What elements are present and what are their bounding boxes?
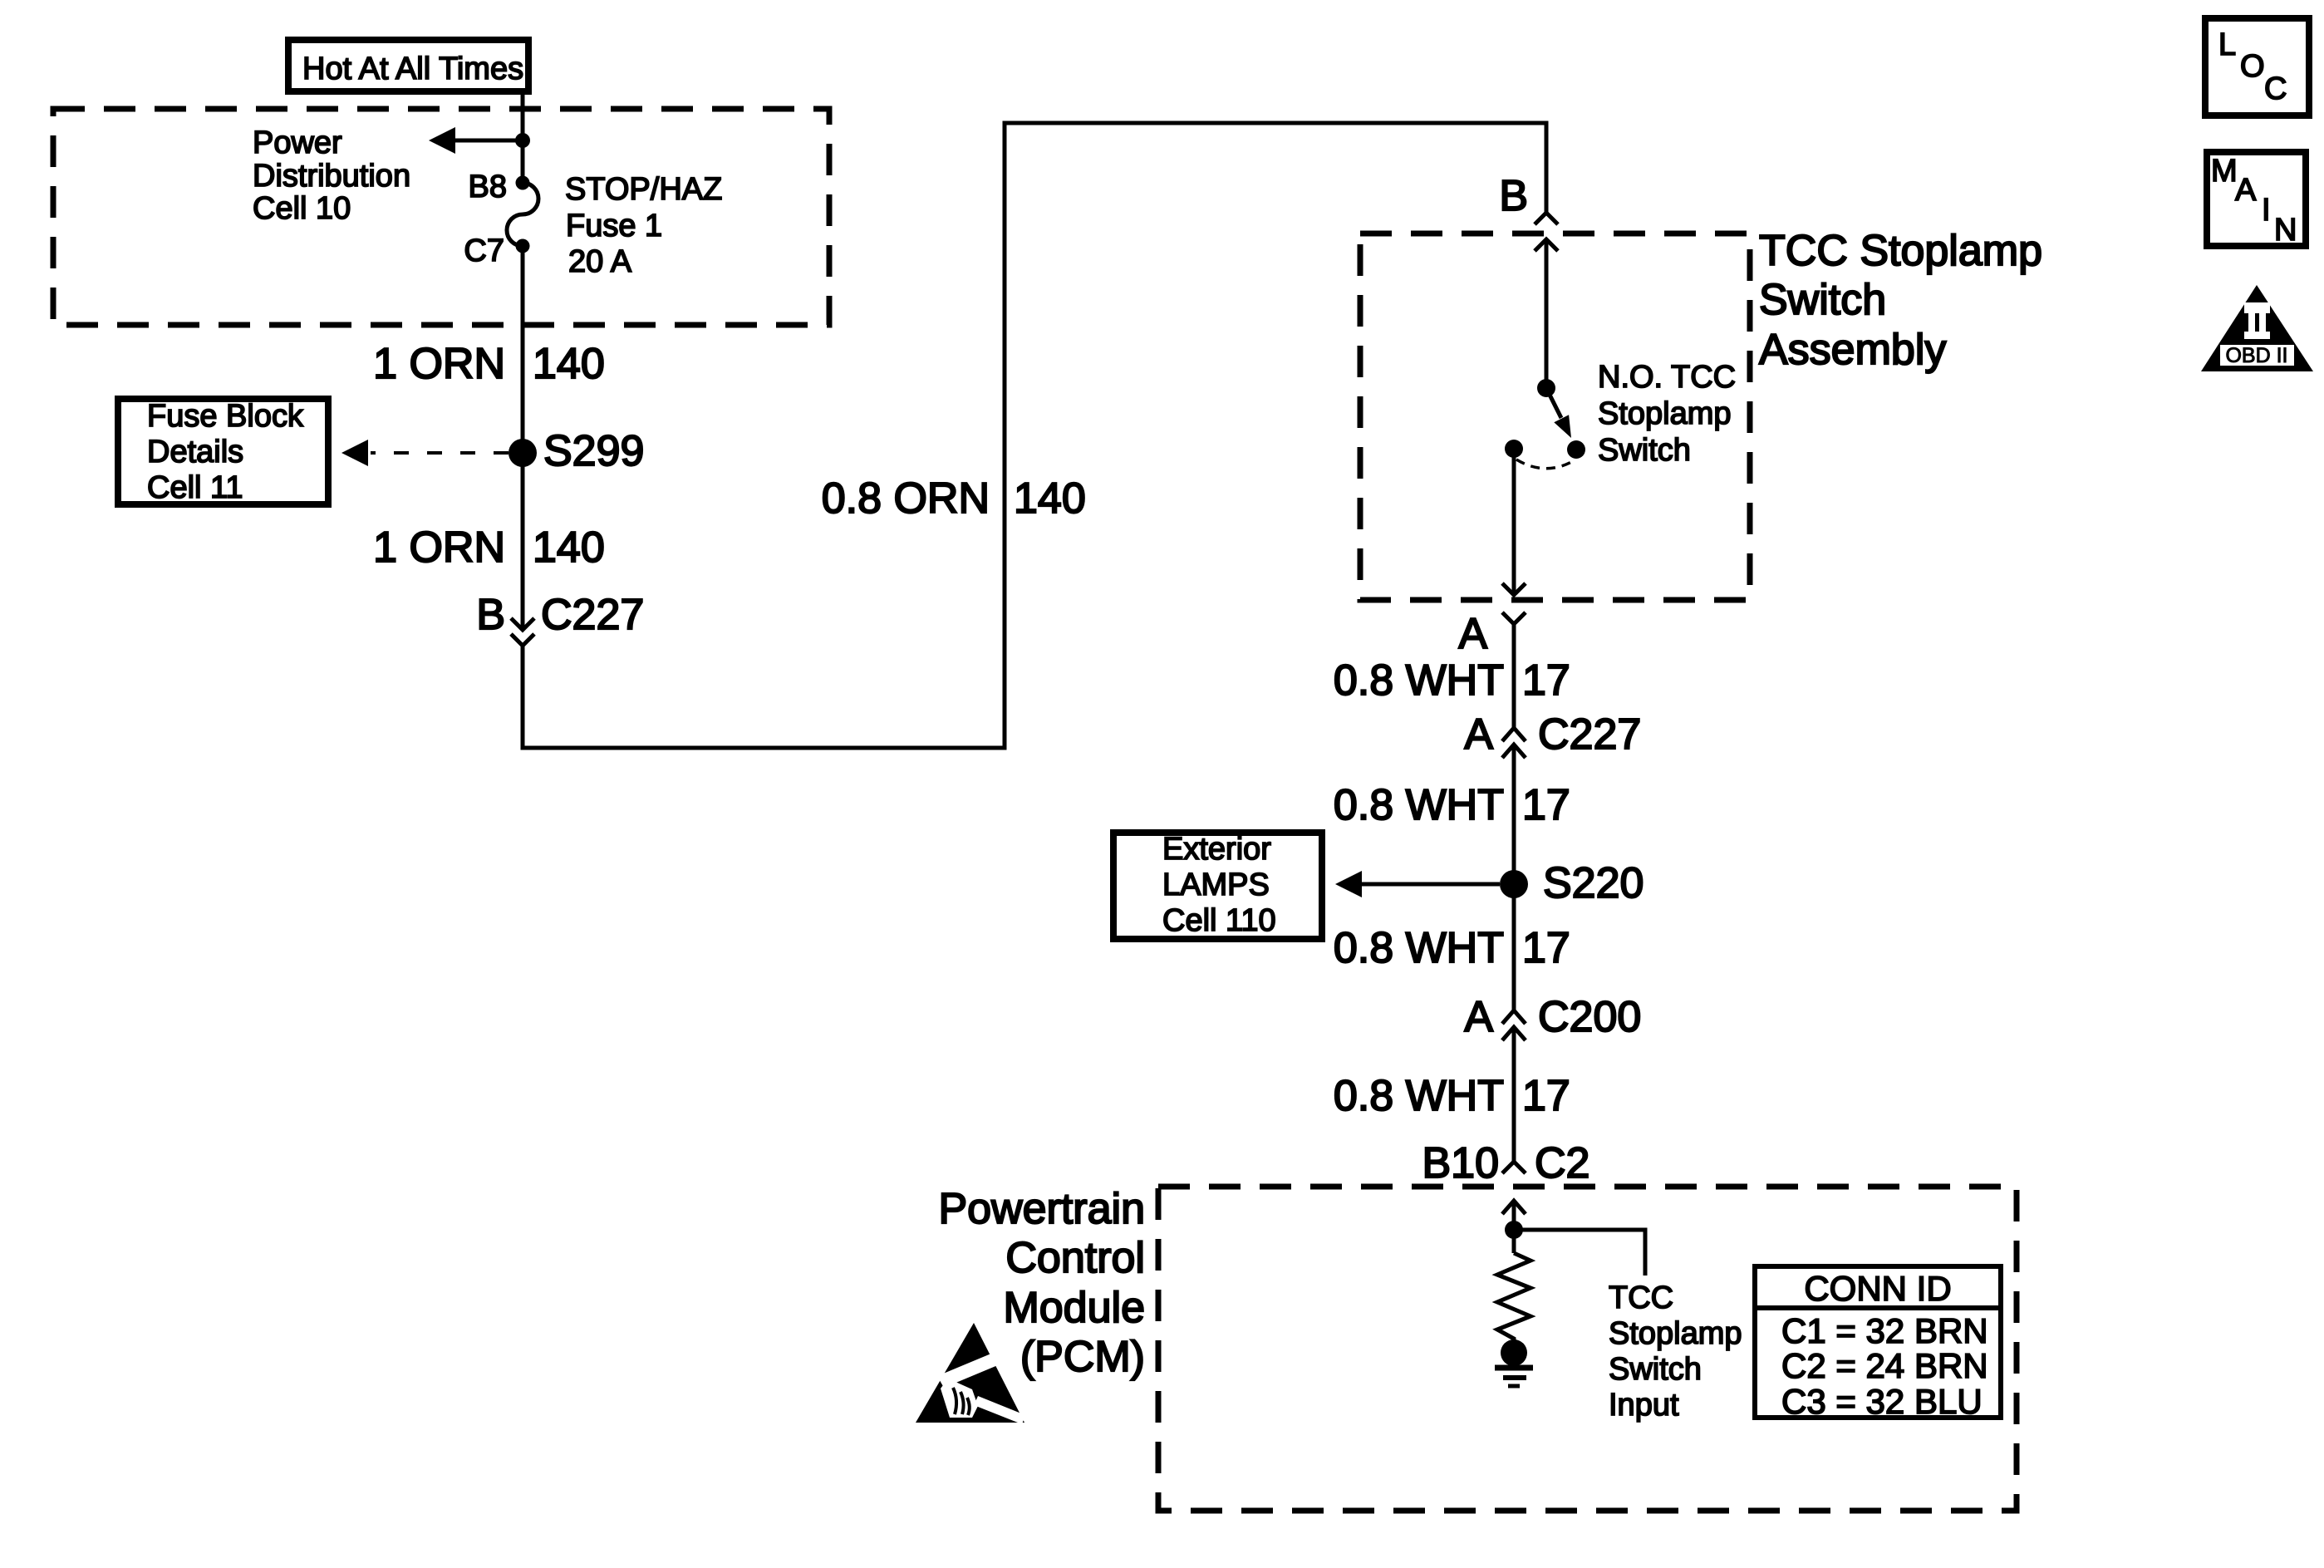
branch wire to TCC input stub <box>1514 1230 1645 1276</box>
svg-text:S220: S220 <box>1543 859 1644 907</box>
arrow to Power Distribution <box>429 127 523 154</box>
svg-text:0.8 ORN: 0.8 ORN <box>822 474 990 523</box>
wire C227 down, across, up, to TCC switch <box>523 123 1546 748</box>
svg-text:STOP/HAZ: STOP/HAZ <box>565 172 722 207</box>
svg-text:TCC Stoplamp: TCC Stoplamp <box>1759 227 2042 275</box>
wire C200 to connector C2 <box>1512 1027 1516 1162</box>
svg-text:Cell 10: Cell 10 <box>253 191 351 226</box>
svg-text:C7: C7 <box>464 233 504 268</box>
svg-text:B8: B8 <box>469 170 507 204</box>
svg-text:Switch: Switch <box>1598 433 1691 468</box>
svg-text:Assembly: Assembly <box>1759 326 1946 374</box>
LOC icon <box>2205 18 2309 116</box>
svg-text:Input: Input <box>1609 1388 1679 1423</box>
switch contact dot (left, on wire) <box>1505 440 1523 458</box>
svg-text:N: N <box>2274 213 2297 248</box>
splice S299 <box>509 439 537 467</box>
svg-text:17: 17 <box>1522 656 1570 705</box>
svg-text:C1 = 32 BRN: C1 = 32 BRN <box>1781 1311 1988 1350</box>
TCC Stoplamp Switch Assembly dashed box <box>1360 233 1750 600</box>
svg-text:Switch: Switch <box>1759 276 1886 324</box>
svg-text:17: 17 <box>1522 924 1570 972</box>
svg-text:Control: Control <box>1005 1234 1145 1282</box>
wire B into switch pivot <box>1545 239 1549 388</box>
pin dot C7 <box>516 239 530 253</box>
Powertrain Control Module dashed box <box>1158 1187 2017 1511</box>
svg-text:C2: C2 <box>1535 1139 1589 1187</box>
dashed arrow from S299 to Fuse Block Details <box>341 440 509 466</box>
OBD II icon <box>2201 285 2313 371</box>
svg-text:A: A <box>2235 173 2257 208</box>
wire S220 to connector C200 <box>1512 884 1516 1010</box>
switch travel dashed arc <box>1516 460 1575 469</box>
svg-text:B: B <box>476 591 505 639</box>
svg-text:Distribution: Distribution <box>253 159 410 194</box>
svg-text:C3 = 32 BLU: C3 = 32 BLU <box>1781 1382 1983 1421</box>
svg-text:N.O. TCC: N.O. TCC <box>1598 360 1736 395</box>
svg-text:C: C <box>2264 71 2287 106</box>
Power Distribution dashed box <box>53 109 829 325</box>
svg-text:C227: C227 <box>541 591 644 639</box>
connector B chevrons at TCC box top <box>1535 213 1558 251</box>
svg-text:0.8 WHT: 0.8 WHT <box>1334 656 1504 705</box>
switch blade with arrowhead <box>1546 388 1571 438</box>
svg-text:B10: B10 <box>1422 1139 1499 1187</box>
MAIN icon <box>2207 152 2306 248</box>
switch contact dot (right) <box>1567 440 1585 459</box>
svg-text:Details: Details <box>147 435 243 469</box>
svg-text:17: 17 <box>1522 1072 1570 1120</box>
Exterior LAMPS Cell 110 box <box>1113 832 1322 939</box>
svg-text:C200: C200 <box>1538 993 1641 1041</box>
junction dot <box>1505 1221 1523 1239</box>
wire A to connector C227 <box>1512 624 1516 728</box>
svg-text:0.8 WHT: 0.8 WHT <box>1334 924 1504 972</box>
svg-text:1 ORN: 1 ORN <box>373 340 505 388</box>
CONN ID table <box>1755 1266 2001 1421</box>
svg-text:Power: Power <box>253 125 342 160</box>
svg-text:Exterior: Exterior <box>1162 832 1271 867</box>
arrow from S220 to Exterior LAMPS <box>1335 871 1500 897</box>
svg-text:Module: Module <box>1003 1284 1145 1332</box>
connector C200 pin A (double chevron up) <box>1502 1010 1526 1040</box>
svg-text:O: O <box>2240 49 2265 84</box>
wire into PCM junction <box>1512 1201 1516 1253</box>
svg-text:Powertrain: Powertrain <box>938 1185 1145 1233</box>
svg-text:0.8 WHT: 0.8 WHT <box>1334 781 1504 829</box>
wire from left contact down to connector A <box>1512 449 1516 595</box>
wire from Hot At All Times into fuse <box>521 93 525 183</box>
svg-text:M: M <box>2211 154 2238 189</box>
svg-text:S299: S299 <box>543 427 644 475</box>
svg-text:LAMPS: LAMPS <box>1162 868 1270 902</box>
ground symbol <box>1495 1368 1533 1386</box>
connector arrow chevron inside PCM <box>1502 1201 1526 1214</box>
svg-text:L: L <box>2218 27 2236 62</box>
svg-text:1 ORN: 1 ORN <box>373 523 505 572</box>
svg-text:A: A <box>1464 710 1493 759</box>
svg-text:Hot At All Times: Hot At All Times <box>302 52 523 86</box>
svg-text:0.8 WHT: 0.8 WHT <box>1334 1072 1504 1120</box>
svg-text:Stoplamp: Stoplamp <box>1598 396 1732 431</box>
ESD sensitive device symbol <box>916 1323 1025 1424</box>
svg-text:C227: C227 <box>1538 710 1641 759</box>
svg-text:Cell 11: Cell 11 <box>147 470 243 505</box>
wire S299 to connector C227 <box>521 453 525 630</box>
svg-text:CONN ID: CONN ID <box>1804 1269 1951 1308</box>
Fuse Block Details box <box>118 399 328 505</box>
svg-text:Cell 110: Cell 110 <box>1162 903 1276 938</box>
connector C227 pin B (double chevron down) <box>511 618 534 646</box>
svg-text:20 A: 20 A <box>568 244 632 279</box>
svg-text:A: A <box>1464 993 1493 1041</box>
svg-text:I: I <box>2262 193 2271 228</box>
resistor (PCM internal pull) <box>1497 1253 1530 1353</box>
svg-text:(PCM): (PCM) <box>1020 1333 1145 1381</box>
connector C2 chevron (above PCM box) <box>1502 1162 1526 1173</box>
junction box label "Hot At All Times" <box>288 40 528 91</box>
svg-text:140: 140 <box>1014 474 1086 523</box>
svg-text:TCC: TCC <box>1609 1280 1673 1315</box>
svg-text:B: B <box>1499 172 1528 220</box>
svg-text:C2 = 24 BRN: C2 = 24 BRN <box>1781 1346 1988 1385</box>
svg-text:A: A <box>1458 610 1487 658</box>
svg-text:140: 140 <box>533 523 605 572</box>
svg-text:Switch: Switch <box>1609 1352 1702 1387</box>
connector C227 pin A (double chevron up) <box>1502 728 1526 758</box>
ground splice dot <box>1501 1339 1527 1366</box>
connector A exit chevrons (pointing down) <box>1502 583 1526 624</box>
svg-text:Fuse Block: Fuse Block <box>147 399 304 434</box>
fuse Fuse 1 element (S-curve) <box>507 183 538 246</box>
junction dot at arrow <box>515 133 530 148</box>
svg-text:Stoplamp: Stoplamp <box>1609 1316 1742 1351</box>
svg-text:17: 17 <box>1522 781 1570 829</box>
pin dot B8 <box>516 176 530 190</box>
splice S220 <box>1500 870 1528 898</box>
switch pivot dot <box>1537 379 1555 397</box>
wire fuse C7 to splice S299 <box>521 246 525 453</box>
wire C227 to splice S220 <box>1512 745 1516 884</box>
svg-text:OBD II: OBD II <box>2225 344 2287 367</box>
svg-text:Fuse 1: Fuse 1 <box>566 209 662 243</box>
svg-text:140: 140 <box>533 340 605 388</box>
